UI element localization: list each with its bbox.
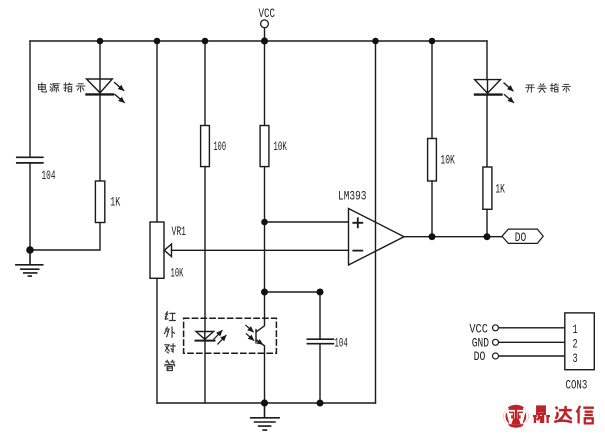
- junction node collector: [261, 289, 268, 296]
- junction node ground-left: [26, 246, 34, 254]
- wire minus input from VR1 wiper: [172, 249, 349, 251]
- connector CON3 box: [565, 313, 595, 370]
- svg-text:10K: 10K: [273, 139, 287, 154]
- svg-text:CON3: CON3: [566, 377, 588, 392]
- LED D2 switch indicator: [475, 80, 501, 94]
- svg-text:LM393: LM393: [338, 189, 367, 204]
- junction node cap2-top: [317, 289, 324, 296]
- LED D1 arrows: [115, 83, 124, 91]
- wire LED to R1: [99, 95, 101, 181]
- junction node rail-D1: [97, 38, 104, 45]
- logo icon circle: [503, 405, 528, 428]
- svg-text:VCC: VCC: [469, 322, 488, 337]
- resistor R2 100: [201, 126, 210, 167]
- connector pin wire GND: [499, 341, 565, 343]
- logo text 达: [554, 406, 572, 422]
- label 开关指示 switch indicator: [526, 83, 571, 92]
- wire R2 column upper: [204, 41, 206, 126]
- junction node rail-R2: [202, 38, 209, 45]
- ground GND1: [16, 250, 43, 276]
- wire top rail VCC: [30, 40, 487, 42]
- svg-text:2: 2: [573, 337, 578, 352]
- svg-text:1: 1: [573, 322, 578, 337]
- svg-text:3: 3: [573, 351, 578, 366]
- junction node plus-input: [261, 219, 268, 226]
- logo text 信: [577, 406, 594, 424]
- wire R4 column upper: [431, 41, 433, 139]
- wire IR LED to bottom rail: [204, 342, 206, 403]
- connector pin circle VCC: [493, 325, 499, 331]
- svg-text:104: 104: [42, 168, 56, 183]
- LED D1 power indicator: [87, 79, 113, 93]
- phototransistor Q1: [256, 292, 265, 403]
- logo icon stem: [515, 409, 517, 419]
- svg-text:104: 104: [334, 336, 348, 351]
- resistor R1 1K: [95, 181, 104, 223]
- IR LED D3 emission arrows: [214, 331, 222, 340]
- junction node rail-U1: [372, 38, 379, 45]
- logo icon scrolls: [509, 412, 523, 417]
- resistor R4 10K: [428, 139, 437, 182]
- wire R4 to output: [431, 181, 433, 237]
- junction node output-R5: [484, 233, 491, 240]
- resistor R5 1K: [483, 167, 492, 209]
- svg-text:VR1: VR1: [172, 224, 187, 239]
- svg-text:100: 100: [214, 139, 227, 154]
- capacitor C1 104: [17, 157, 43, 163]
- ground GND2: [251, 403, 279, 430]
- junction node bottom-gnd: [261, 399, 268, 406]
- logo icon leg gaps: [506, 423, 526, 428]
- op-amp U1 LM393: [349, 209, 405, 266]
- svg-text:DO: DO: [474, 349, 486, 364]
- junction node rail-R4: [429, 38, 436, 45]
- svg-text:10K: 10K: [440, 153, 455, 168]
- LED D2 arrows: [504, 83, 513, 91]
- potentiometer VR1 wiper arrow: [164, 244, 171, 257]
- wire left column upper: [29, 41, 31, 157]
- text labels (latin): [42, 6, 588, 392]
- VCC terminal circle: [261, 20, 269, 28]
- connector pin circle DO: [493, 353, 499, 359]
- wire VCC stub: [264, 28, 266, 41]
- potentiometer VR1 10K body: [150, 222, 164, 278]
- phototransistor Q1 incident arrows: [246, 325, 254, 332]
- connector pin wire VCC: [499, 327, 565, 329]
- logo text 鼎: [533, 407, 550, 424]
- wire left column lower: [29, 164, 31, 250]
- wire cap2 column upper: [319, 292, 321, 338]
- resistor R3 10K: [260, 126, 269, 167]
- wire VR1 column upper: [156, 41, 158, 222]
- svg-text:1K: 1K: [495, 181, 505, 196]
- junction node output-R4: [429, 233, 436, 240]
- connector pin circle GND: [493, 339, 499, 345]
- capacitor C2 104: [307, 339, 333, 344]
- svg-text:1K: 1K: [110, 195, 120, 210]
- wire right column upper: [486, 41, 488, 80]
- wire VR1 column lower: [156, 278, 158, 403]
- wire bottom rail: [157, 402, 376, 404]
- wire R3 to nodes: [264, 167, 266, 292]
- wire cap2 column lower: [319, 344, 321, 403]
- logo icon white crescents: [505, 408, 528, 424]
- connector pin wire DO: [499, 355, 565, 357]
- logo icon wedge legs: [511, 418, 520, 424]
- junction node rail-VR1: [154, 38, 161, 45]
- junction node cap2-bottom: [317, 400, 324, 407]
- wire opamp power column: [375, 41, 377, 403]
- dashed box infrared pair: [184, 318, 277, 353]
- IR LED D3: [196, 332, 214, 340]
- wire plus input: [265, 221, 349, 223]
- label 红外对管 infrared pair (vertical): [164, 312, 175, 371]
- op-amp plus sign: [353, 218, 362, 227]
- wire power LED column upper: [99, 41, 101, 79]
- wire R3 column upper: [264, 41, 266, 126]
- junction node rail-VCC: [261, 37, 268, 44]
- wire R2 to IR LED: [204, 167, 206, 332]
- svg-text:DO: DO: [515, 230, 527, 245]
- wire collector node to cap: [265, 291, 321, 293]
- signal flag DO: [502, 229, 543, 243]
- wire LED2 to R5: [486, 95, 488, 167]
- wire 1K bottom to ground node: [30, 223, 100, 251]
- svg-text:VCC: VCC: [259, 6, 276, 21]
- op-amp minus sign: [353, 250, 362, 252]
- svg-text:10K: 10K: [171, 266, 184, 281]
- label 电源指示 power indicator: [39, 83, 86, 92]
- wire R5 to output: [486, 209, 488, 236]
- logo icon vessel: [506, 410, 526, 424]
- logo 鼎达信 dingdaxin: [503, 405, 594, 428]
- wire opamp output: [404, 236, 502, 238]
